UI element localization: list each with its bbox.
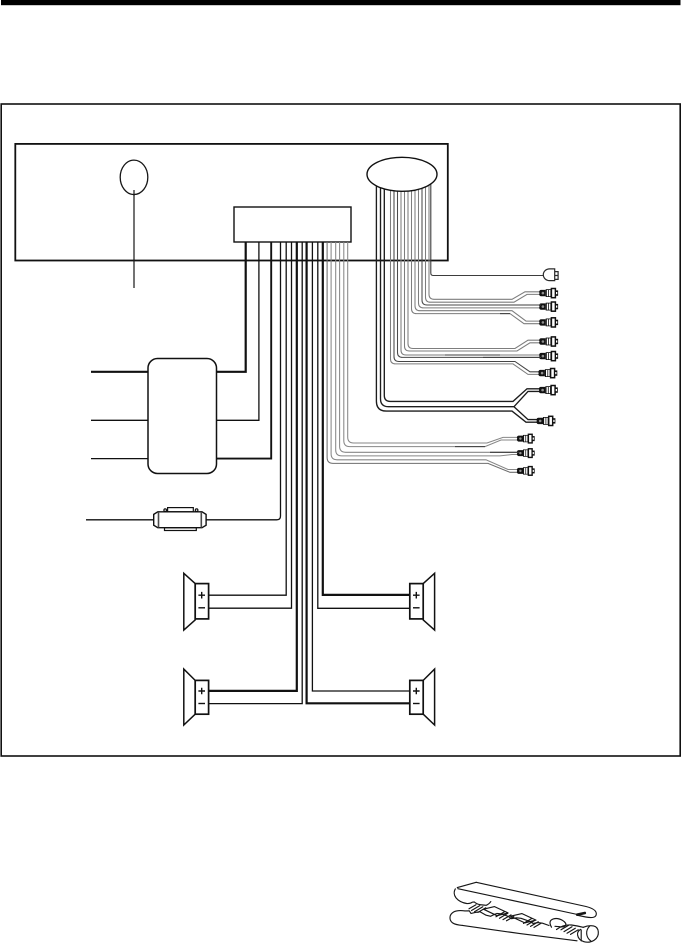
fuse holder F1 <box>154 508 206 531</box>
clamp tooth hatch 3 <box>524 919 542 928</box>
clamp bottom bar bottom edge <box>463 925 578 940</box>
connector block <box>234 207 351 242</box>
clamp tooth hatch 2 <box>496 912 514 921</box>
speaker BR cone <box>423 669 434 725</box>
speaker BR plus <box>413 688 420 695</box>
clamp top bar left corner <box>457 882 476 887</box>
wire c3 to relay bottom <box>217 242 272 459</box>
harness bundle ellipse <box>367 157 437 191</box>
gray wire group1 a2 <box>426 180 542 302</box>
speaker wire BL+ <box>209 242 297 691</box>
clamp tooth hatch 4 <box>561 925 578 934</box>
speaker TR terminal block <box>410 584 423 619</box>
speaker wire BL- <box>209 242 303 704</box>
gray wire tube1b <box>344 242 519 447</box>
clamp bottom bar left nose <box>450 911 465 926</box>
fuse left wire <box>86 519 154 521</box>
front RCA plug 1 <box>539 289 558 298</box>
speaker wire TR+ <box>323 242 410 595</box>
wire c2 to relay middle <box>217 242 259 420</box>
gray wire tube1a to rear RCA <box>348 242 519 443</box>
clamp top bar lower edge <box>458 889 578 915</box>
gray wire group1 b1 <box>422 180 541 305</box>
clamp tooth outline 2 <box>511 914 537 923</box>
diagram frame <box>1 104 680 756</box>
gray wire group2 f2 <box>391 180 541 374</box>
speaker BR terminal block <box>410 680 423 714</box>
speaker wire BR+ <box>312 242 410 691</box>
clamp ear <box>550 918 566 927</box>
gray wire group2 d2 <box>405 180 542 351</box>
speaker BL plus <box>198 688 205 695</box>
speaker TL cone <box>184 573 195 630</box>
antenna jack plug <box>543 269 554 281</box>
speaker BL minus <box>198 703 205 705</box>
clamp dark tick <box>577 913 585 915</box>
mid RCA plug 2 <box>539 352 558 361</box>
gray wire group2 e1 <box>401 180 541 355</box>
gray wire group1 a1 <box>429 180 541 299</box>
gray wire tube2b <box>336 242 519 456</box>
antenna ellipse <box>120 160 148 194</box>
speaker BR minus <box>413 703 420 705</box>
speaker wire TL- <box>209 242 292 608</box>
speaker TL plus <box>198 592 205 599</box>
clamp top bar top edge <box>476 882 596 917</box>
front RCA plug 3 <box>539 318 558 327</box>
speaker wire TR- <box>318 242 410 608</box>
gray wire group1 b2 <box>419 180 542 308</box>
relay box U1 <box>148 359 217 474</box>
wire c4 to fuse <box>206 242 280 520</box>
antenna jack wire <box>431 180 543 276</box>
gray wire group2 e2 <box>398 180 542 357</box>
relay bottom left lead <box>91 458 148 460</box>
speaker TR minus <box>413 607 420 609</box>
gray wire group1 c1 <box>415 180 541 321</box>
speaker BL cone <box>184 669 195 725</box>
wire clamp accessory <box>450 882 598 942</box>
clamp right hook top <box>557 925 584 930</box>
harness Y wire line c <box>376 180 538 422</box>
speaker TL terminal block <box>195 584 208 619</box>
clamp tooth outline 1 <box>484 907 509 916</box>
gray wire tube2a <box>340 242 519 452</box>
harness Y wire line a <box>384 180 541 401</box>
antenna lead tip inside ellipse <box>133 190 135 196</box>
gray wire tube3a <box>331 242 519 470</box>
clamp bottom bar wavy top edge <box>465 911 549 926</box>
rear RCA plug 3 <box>517 467 535 476</box>
Y RCA plug lower <box>536 416 555 425</box>
rear RCA plug 1 <box>517 434 535 443</box>
harness Y wire line b <box>381 180 542 420</box>
gray wire group2 d1 <box>408 180 541 349</box>
gray wire tube3b <box>327 242 519 472</box>
relay middle left lead <box>91 419 148 421</box>
speaker TL minus <box>198 607 205 609</box>
head unit outline <box>15 144 448 261</box>
header black bar <box>1 0 681 5</box>
mid RCA plug 1 <box>539 337 558 346</box>
Y RCA plug upper <box>539 386 558 395</box>
gray wire group2 f1 <box>394 180 540 372</box>
rear RCA plug 2 <box>517 449 535 458</box>
clamp tooth hatch 1 <box>469 905 486 913</box>
speaker TR plus <box>413 592 420 599</box>
clamp top jaw nose and beak <box>454 889 491 905</box>
antenna lead wire <box>133 185 135 288</box>
speaker TR cone <box>423 573 434 630</box>
speaker wire TL+ <box>209 242 287 595</box>
dark cable accent segments <box>445 305 541 452</box>
gray wire group1 c2 <box>412 180 542 324</box>
speaker BL terminal block <box>195 680 208 714</box>
clamp right curl <box>578 926 599 943</box>
clamp curl inner lines <box>581 926 591 941</box>
wire c1 to relay top <box>217 242 246 372</box>
relay top left lead <box>91 371 148 373</box>
front RCA plug 2 <box>539 302 558 311</box>
speaker wire BR- <box>307 242 410 703</box>
mid RCA plug 3 <box>538 369 557 378</box>
